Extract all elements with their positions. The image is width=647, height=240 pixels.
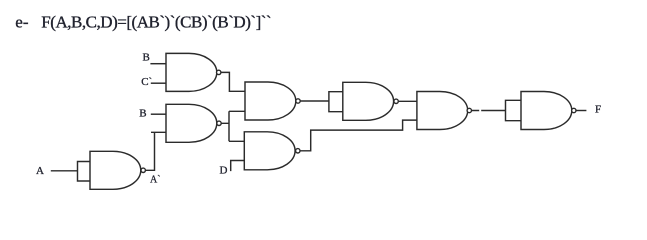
svg-text:A: A [36,165,44,177]
svg-text:B: B [139,108,146,120]
svg-text:A`: A` [150,174,161,185]
svg-text:C`: C` [141,76,152,88]
svg-text:B: B [143,52,150,64]
svg-text:F: F [595,103,601,115]
svg-text:F(A,B,C,D)=[(AB`)`(CB)`(B`D)`]: F(A,B,C,D)=[(AB`)`(CB)`(B`D)`]`` [41,13,271,32]
svg-text:e-: e- [15,13,29,32]
svg-text:D: D [220,165,228,177]
